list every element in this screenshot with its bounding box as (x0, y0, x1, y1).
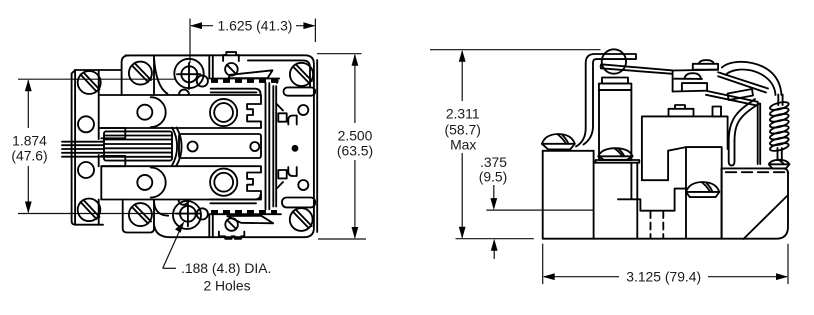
svg-text:2.500: 2.500 (338, 128, 373, 144)
armature laminated bar (104, 131, 172, 160)
svg-text:.188 (4.8) DIA.: .188 (4.8) DIA. (181, 260, 271, 276)
screw top-right (290, 63, 313, 86)
dome on tower (686, 182, 719, 197)
spring neck bottom (778, 148, 782, 160)
dome screw on left block (542, 134, 575, 149)
top contact assembly (99, 95, 261, 128)
base middle steps (618, 180, 686, 238)
bottom contact assembly (101, 166, 261, 199)
spring coil (769, 101, 789, 153)
plate hole lower (78, 162, 94, 178)
svg-text:(47.6): (47.6) (11, 148, 47, 164)
svg-text:(63.5): (63.5) (337, 143, 373, 159)
top bracket (576, 54, 636, 147)
dim 1.625 top (190, 18, 315, 63)
bottom left verticals (212, 214, 214, 237)
dome on hub (693, 60, 718, 70)
svg-text:2.311: 2.311 (446, 106, 480, 122)
screw bottom-right (290, 208, 313, 231)
wire into channel (729, 99, 760, 166)
right block (722, 168, 789, 239)
step above bottom assembly (101, 156, 125, 166)
svg-text:1.625 (41.3): 1.625 (41.3) (218, 18, 293, 34)
svg-text:1.874: 1.874 (12, 133, 47, 149)
lower blade (706, 91, 760, 164)
dim 3.125 bottom (543, 244, 788, 285)
dome screw on block 2 (598, 148, 632, 160)
plate hole upper (78, 116, 94, 132)
center tower (668, 147, 722, 238)
base outline (543, 151, 788, 239)
spring bottom dome (769, 160, 790, 165)
right column details (276, 104, 308, 191)
screw bottom-left (78, 199, 101, 222)
terminal block bottom (123, 200, 210, 238)
mounting screw bottom (cross) (173, 200, 208, 229)
svg-text:(58.7): (58.7) (445, 122, 481, 138)
top blade parallelogram (229, 70, 273, 78)
dim .375 (456, 154, 594, 259)
dim 1.874 left (11, 79, 178, 213)
upper leaf sheet (718, 72, 768, 92)
screw top-left (78, 71, 101, 94)
bottom small terminal bump (219, 218, 244, 239)
step below top assembly (101, 128, 125, 138)
main body rect (642, 105, 728, 180)
bottom stripe serration (210, 210, 281, 214)
svg-text:3.125 (79.4): 3.125 (79.4) (626, 269, 701, 285)
terminal block top (122, 55, 168, 95)
mounting screw top (cross) (174, 59, 208, 95)
top rails (211, 87, 316, 95)
block 2 (594, 160, 640, 239)
bottom blade parallelogram (227, 216, 273, 224)
top small terminal bump (223, 52, 239, 76)
armature hub block (673, 70, 719, 92)
bottom rails (210, 195, 315, 208)
svg-text:(9.5): (9.5) (479, 168, 508, 184)
spring neck top (778, 95, 782, 106)
leaf end tab (728, 89, 753, 100)
left block (543, 151, 594, 239)
svg-text:2 Holes: 2 Holes (203, 277, 250, 293)
leader .188 DIA (163, 221, 272, 293)
top stripe serration (211, 79, 280, 83)
center body outline (126, 55, 318, 237)
svg-text:Max: Max (450, 137, 476, 153)
armature arc (172, 128, 182, 166)
dim 2.311 (430, 50, 601, 239)
armature bar thin left (62, 142, 104, 157)
middle bar right (179, 134, 261, 158)
left plate (72, 70, 122, 225)
inner divider verticals (266, 83, 277, 209)
dim 2.500 right (317, 54, 373, 239)
coil tower (599, 78, 632, 200)
long arm (601, 64, 673, 74)
pivot circle (602, 49, 626, 73)
loop wire (722, 62, 782, 95)
